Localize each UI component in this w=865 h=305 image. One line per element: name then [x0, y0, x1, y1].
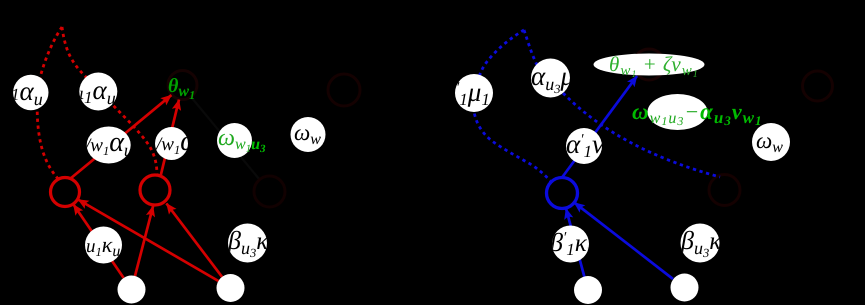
- node R label: [549, 228, 596, 260]
- blue arrow T1 to Q: [566, 209, 584, 277]
- node N label omega_w: [756, 128, 783, 156]
- node B2 white circle: [155, 127, 188, 160]
- ellipse K white: [594, 54, 705, 76]
- ellipse M white behind green formula: [648, 94, 708, 130]
- node A2 label: [79, 75, 116, 108]
- blue arrow Q to ellipse K: [562, 76, 637, 178]
- dark ring around theta_w1: [168, 71, 197, 100]
- node B1 white ellipse: [87, 127, 131, 164]
- dark ring O top right: [803, 71, 833, 101]
- node A1 white circle: [13, 75, 48, 110]
- node H label: [227, 226, 269, 260]
- red dashed curve, left branch (apex to red circle R1): [37, 27, 62, 180]
- blue arrow T2 to Q: [574, 203, 673, 280]
- node S white circle: [681, 224, 720, 263]
- node B2 label: [155, 126, 196, 157]
- node D white circle: [291, 117, 326, 152]
- node N white circle: [752, 123, 790, 161]
- red arrow R2 to theta: [161, 100, 179, 176]
- red circle R1: [51, 178, 80, 207]
- node D label omega_w: [294, 120, 321, 148]
- node G white circle: [85, 227, 122, 264]
- node S label: [680, 226, 722, 260]
- node J2 label: [531, 61, 574, 96]
- node C white circle: [217, 123, 252, 158]
- bottom node I1: [118, 276, 146, 304]
- bottom node I2: [217, 274, 245, 302]
- node G label: [86, 232, 120, 260]
- bottom node T1: [574, 276, 602, 304]
- red dashed curve, right branch (apex through node A2 to red circle R2): [62, 27, 157, 176]
- dark ring F below node C: [254, 176, 285, 207]
- node R white circle: [552, 226, 589, 263]
- blue dashed curve, left branch (apex through node J1 to blue circle Q): [474, 30, 554, 185]
- dark ring E top-middle-left: [328, 74, 360, 106]
- node J2 white circle: [531, 59, 570, 98]
- dark ring behind ellipse K: [634, 49, 665, 80]
- red arrow I2 to R1: [78, 200, 218, 282]
- red arrow I2 to R2: [166, 203, 222, 276]
- blue circle Q: [547, 178, 578, 209]
- node B1 label: [84, 127, 133, 160]
- faint black edge theta_w1 to dark ring F: [191, 97, 260, 180]
- red arrow I1 to R2: [135, 206, 153, 276]
- blue dashed curve, right branch (apex through node J2, long arc to dark ring P): [524, 30, 720, 177]
- node L label: [566, 129, 613, 162]
- node A1 label: [11, 76, 43, 109]
- node L white circle: [566, 128, 602, 164]
- node A2 white circle: [79, 73, 117, 111]
- node J1 white circle: [455, 74, 493, 112]
- dark ring P (end of blue dashed curve): [709, 175, 740, 206]
- node H white circle: [228, 224, 267, 263]
- red circle R2: [140, 175, 170, 205]
- red arrow R1 to theta: [71, 95, 172, 178]
- bottom node T2: [671, 274, 699, 302]
- node J1 label: [456, 77, 490, 109]
- red arrow I1 to R1: [73, 204, 123, 278]
